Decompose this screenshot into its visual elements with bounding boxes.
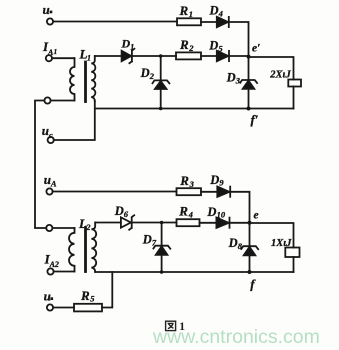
wire D9 to node e bbox=[231, 192, 250, 223]
diode D1 bbox=[122, 51, 132, 61]
svg-text:4: 4 bbox=[188, 209, 193, 219]
wire D6 to R4 bbox=[133, 222, 177, 224]
wire R1 to D4 bbox=[201, 21, 217, 23]
svg-text:D: D bbox=[209, 4, 219, 18]
wire T3 to L2 primary bbox=[52, 227, 74, 229]
label IA1 bbox=[42, 39, 57, 57]
diode D5 bbox=[217, 51, 228, 61]
wire e' to relay 2XJ bbox=[249, 57, 294, 80]
diode D9 bbox=[217, 187, 229, 197]
svg-text:2: 2 bbox=[149, 71, 155, 81]
svg-text:D: D bbox=[206, 205, 216, 219]
resistor R1 bbox=[177, 18, 201, 25]
relay 1XJ bbox=[285, 248, 299, 258]
svg-text:1XιJ: 1XιJ bbox=[271, 238, 292, 249]
resistor R4 bbox=[177, 219, 200, 226]
node e bbox=[248, 221, 252, 225]
rail f bbox=[95, 271, 293, 273]
svg-text:2: 2 bbox=[86, 223, 91, 232]
terminal uB bbox=[47, 304, 53, 310]
svg-text:D: D bbox=[140, 66, 150, 80]
svg-text:R: R bbox=[179, 3, 189, 18]
svg-text:c: c bbox=[49, 130, 53, 140]
svg-text:A: A bbox=[50, 179, 57, 189]
svg-text:4: 4 bbox=[218, 9, 223, 19]
svg-text:5: 5 bbox=[90, 294, 95, 304]
transformer L2 core bbox=[84, 228, 87, 272]
diode D8 bbox=[249, 223, 251, 246]
wire ub to R1 bbox=[53, 21, 177, 23]
relay 2XJ bbox=[288, 80, 301, 87]
wire R5 to rail f bbox=[102, 272, 112, 308]
wire D1 to R2 bbox=[133, 55, 176, 57]
wire L1 secondary to D1 bbox=[95, 55, 122, 57]
svg-text:www.cntronics.com: www.cntronics.com bbox=[152, 326, 320, 348]
diode D10 bbox=[216, 218, 228, 228]
svg-text:R: R bbox=[179, 173, 189, 188]
svg-text:9: 9 bbox=[219, 178, 224, 188]
svg-text:7: 7 bbox=[152, 237, 157, 247]
caption tu1 bbox=[166, 321, 176, 330]
svg-text:A2: A2 bbox=[49, 260, 59, 269]
wire relay 1XJ to rail f bbox=[293, 257, 295, 272]
svg-text:f′: f′ bbox=[251, 112, 259, 127]
terminal IA2 bbox=[47, 268, 53, 274]
node D2 bottom bbox=[159, 107, 163, 111]
wire L2 secondary to D6 bbox=[95, 222, 121, 224]
transformer L2 primary winding bbox=[69, 228, 75, 272]
svg-text:D: D bbox=[142, 233, 152, 247]
diode D2 bbox=[160, 56, 162, 80]
wire D10 to e bbox=[230, 222, 249, 224]
transformer L1 primary winding bbox=[70, 58, 75, 100]
label L2 bbox=[78, 216, 91, 232]
svg-text:D: D bbox=[226, 71, 236, 85]
svg-text:D: D bbox=[121, 37, 131, 51]
node e' bbox=[247, 55, 251, 59]
wire D5 to e' bbox=[230, 55, 249, 57]
svg-text:8: 8 bbox=[238, 241, 243, 251]
svg-text:R: R bbox=[179, 37, 189, 52]
wire relay 2XJ to rail f' bbox=[293, 87, 295, 109]
terminal T2 bbox=[44, 97, 50, 103]
svg-text:u: u bbox=[44, 289, 51, 304]
wire T2 down-left to terminal T3 bbox=[35, 101, 46, 229]
label L1 bbox=[79, 47, 92, 63]
label ub bbox=[43, 2, 53, 17]
wire R4 to D10 bbox=[200, 222, 217, 224]
svg-text:6: 6 bbox=[124, 209, 129, 219]
wire e to relay 1XJ bbox=[250, 223, 294, 248]
wire R3 to D9 bbox=[201, 191, 217, 193]
wire uc to L1 secondary return bbox=[54, 101, 95, 140]
resistor R3 bbox=[177, 188, 202, 195]
resistor R2 bbox=[176, 52, 201, 59]
node D7 bottom bbox=[160, 270, 164, 274]
wire IA1 to L1 primary bbox=[52, 57, 75, 59]
svg-text:R: R bbox=[80, 288, 90, 303]
terminal T3 bbox=[46, 225, 52, 231]
svg-text:3: 3 bbox=[189, 179, 195, 189]
svg-text:e: e bbox=[254, 210, 259, 222]
wire L2 primary to IA2 bbox=[54, 271, 75, 273]
svg-text:D: D bbox=[114, 204, 124, 218]
rail f' bbox=[95, 108, 294, 110]
transformer L1 secondary winding bbox=[91, 56, 95, 101]
wire L1 primary to terminal T2 bbox=[51, 100, 75, 102]
wire uA to R3 bbox=[53, 191, 177, 193]
terminal uA bbox=[46, 188, 52, 194]
transformer L2 secondary winding bbox=[91, 223, 96, 273]
svg-text:1: 1 bbox=[54, 48, 58, 56]
svg-text:D: D bbox=[208, 39, 218, 53]
svg-text:2XιJ: 2XιJ bbox=[269, 69, 291, 80]
diode D6 bbox=[121, 217, 131, 227]
svg-text:u: u bbox=[43, 2, 50, 17]
wire uB to R5 bbox=[53, 307, 74, 309]
terminal uc bbox=[48, 137, 54, 143]
svg-text:5: 5 bbox=[218, 44, 223, 54]
svg-text:1: 1 bbox=[189, 9, 193, 19]
svg-text:D: D bbox=[228, 236, 238, 250]
terminal IA1 bbox=[46, 55, 52, 61]
node D2 top bbox=[159, 54, 163, 58]
node f' bbox=[247, 107, 251, 111]
svg-text:10: 10 bbox=[217, 210, 226, 220]
node D7 top bbox=[160, 221, 164, 225]
diode D4 bbox=[217, 17, 228, 27]
resistor R5 bbox=[74, 304, 102, 312]
diode D3 bbox=[248, 57, 250, 80]
node f bbox=[248, 270, 252, 274]
wire D4 to node e' bbox=[230, 22, 249, 56]
svg-text:D: D bbox=[209, 173, 219, 187]
svg-text:R: R bbox=[178, 204, 188, 219]
svg-text:e′: e′ bbox=[252, 43, 260, 55]
svg-text:1: 1 bbox=[130, 42, 134, 51]
svg-text:1: 1 bbox=[87, 54, 91, 63]
svg-text:2: 2 bbox=[188, 43, 194, 53]
wire R2 to D5 bbox=[201, 55, 217, 57]
diode D7 bbox=[161, 223, 163, 246]
transformer L1 core bbox=[84, 62, 87, 102]
terminal ub bbox=[47, 18, 53, 24]
svg-text:3: 3 bbox=[235, 75, 241, 85]
